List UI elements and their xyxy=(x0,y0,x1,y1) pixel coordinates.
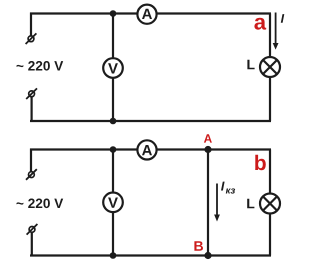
terminal clamp upper (circuit a) xyxy=(26,33,37,44)
wire: right vertical (circuit b) xyxy=(269,150,271,256)
terminal clamp lower (circuit b) xyxy=(27,224,38,235)
node: junction dot, voltmeter branch bottom (circuit a) xyxy=(110,118,117,125)
lamp L2 (circuit b) xyxy=(260,194,280,214)
node label B (red, circuit b) xyxy=(194,241,203,251)
current arrow I (circuit a) xyxy=(273,13,279,50)
node B junction dot (circuit b) xyxy=(204,252,211,259)
terminal clamp lower (circuit a) xyxy=(26,88,37,99)
node A junction dot (circuit b) xyxy=(204,146,211,153)
wire: top horizontal (circuit b) xyxy=(30,148,271,150)
value label: ~ 220 V source (circuit a) xyxy=(17,61,64,71)
current arrow Iкз short-circuit current (circuit b) xyxy=(214,184,220,222)
value label: ~ 220 V source (circuit b) xyxy=(17,199,64,209)
ammeter A1 (circuit a) xyxy=(137,5,156,24)
wire: left lower stub from terminal (circuit a) xyxy=(31,97,33,122)
wire: left upper stub to terminal (circuit b) xyxy=(30,149,32,172)
wire: top horizontal (circuit a) xyxy=(30,12,271,14)
node label A (red, circuit b) xyxy=(204,134,212,142)
label кз subscript of Iкз (circuit b) xyxy=(226,188,235,193)
label I of Iкз current (circuit b) xyxy=(221,182,225,191)
node label b (red, circuit b) xyxy=(255,155,266,170)
wire: bottom horizontal (circuit b) xyxy=(30,254,271,256)
wire: voltmeter branch (circuit a) xyxy=(112,14,114,122)
node label a (red, circuit a) xyxy=(254,18,266,30)
ammeter A2 (circuit b) xyxy=(137,140,156,159)
wire: bottom horizontal (circuit a) xyxy=(30,120,271,122)
node: junction dot, voltmeter branch top (circuit b) xyxy=(110,146,117,153)
wire: short-circuit branch A-B (circuit b) xyxy=(207,150,209,256)
node: junction dot, voltmeter branch bottom (circuit b) xyxy=(110,252,117,259)
node: junction dot, voltmeter branch top (circuit a) xyxy=(110,10,117,17)
wire: right vertical (circuit a) xyxy=(269,14,271,122)
label L (circuit a lamp) xyxy=(247,60,254,70)
label L (circuit b lamp) xyxy=(247,199,254,209)
wire: left lower stub from terminal (circuit b) xyxy=(31,232,33,256)
lamp L1 (circuit a) xyxy=(260,57,280,77)
wire: left upper stub to terminal (circuit a) xyxy=(30,13,32,36)
terminal clamp upper (circuit b) xyxy=(26,169,37,180)
label I current (circuit a) xyxy=(281,14,285,23)
voltmeter V1 (circuit a) xyxy=(103,58,123,78)
voltmeter V2 (circuit b) xyxy=(103,193,123,213)
wire: voltmeter branch (circuit b) xyxy=(112,150,114,256)
